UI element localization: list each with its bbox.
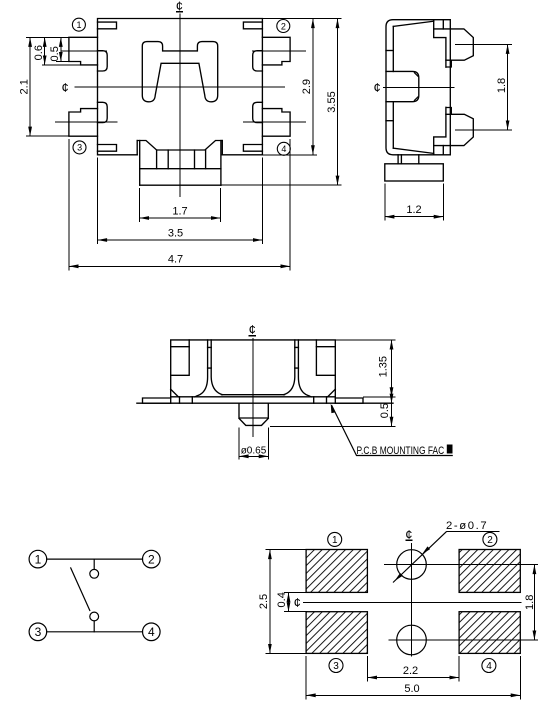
pin 2 circle — [143, 550, 161, 568]
svg-text:1.35: 1.35 — [378, 356, 390, 377]
parting tick top — [386, 50, 393, 52]
dim 2.9 extension top — [262, 18, 341, 20]
leader arrow — [331, 404, 335, 414]
svg-text:2: 2 — [487, 535, 493, 546]
inner chamfer top — [393, 21, 433, 26]
dim 3.55 line — [337, 19, 339, 186]
dim 3.5 extensions — [98, 158, 263, 245]
pin 1 circle — [29, 550, 47, 568]
terminal upper — [434, 29, 474, 60]
inner tab pin 2 — [253, 51, 263, 71]
svg-text:ø0.65: ø0.65 — [241, 446, 267, 457]
vertical centerline — [411, 543, 413, 657]
dim 1.8 line — [533, 565, 535, 641]
pin number 1 — [328, 532, 342, 546]
dim 1.2 line — [385, 216, 444, 218]
cover tab top — [434, 20, 452, 67]
leader line through hole — [393, 531, 447, 582]
body outline — [386, 20, 450, 155]
PCB mounting face line — [137, 402, 393, 404]
feet ticks — [180, 397, 327, 403]
terminal pin 1 — [69, 37, 98, 65]
cavity wall left tick — [208, 347, 212, 368]
hole row line top — [384, 564, 538, 566]
svg-text:4: 4 — [148, 625, 155, 639]
pin number 2 — [483, 532, 497, 546]
svg-text:3: 3 — [333, 661, 339, 672]
actuator ribs — [157, 150, 206, 169]
dim 2.1 extension bottom — [26, 135, 70, 137]
svg-text:1.7: 1.7 — [172, 206, 187, 218]
svg-text:1.2: 1.2 — [406, 204, 421, 216]
actuator bottom edge — [140, 184, 221, 186]
dim 0.4 extension bottom — [284, 611, 308, 613]
pin 3 circle — [29, 623, 47, 641]
bottom chamfer right — [328, 389, 336, 397]
actuator sides — [140, 141, 221, 186]
pin 3 row line — [55, 121, 117, 123]
terminal pin 4 — [262, 109, 290, 137]
inner tab pin 4 — [253, 102, 263, 122]
svg-text:4.7: 4.7 — [168, 254, 183, 266]
svg-text:4: 4 — [281, 144, 286, 154]
svg-text:0.5: 0.5 — [49, 46, 61, 61]
dim 0.65 line — [239, 455, 268, 457]
svg-text:2.9: 2.9 — [301, 79, 313, 94]
dim 1.2 extensions — [385, 184, 444, 221]
top band line — [171, 346, 336, 348]
inner tab pin 1 — [98, 51, 108, 71]
hole top — [397, 550, 427, 580]
flange right — [335, 398, 363, 403]
actuator inner line — [140, 168, 221, 170]
dim 5.0 line — [306, 694, 520, 696]
svg-text:2: 2 — [281, 21, 286, 31]
dim line vertical — [391, 340, 393, 427]
leader arrows — [395, 546, 431, 581]
shank extensions — [239, 428, 268, 460]
body outline — [171, 340, 336, 403]
parting tick bottom — [386, 120, 393, 122]
contact stub top — [93, 559, 95, 569]
cavity floor — [222, 394, 285, 396]
contact circle top — [90, 569, 99, 578]
dim 0.6 line — [44, 37, 46, 65]
contact clip cutout — [142, 42, 217, 102]
terminal pin 3 — [69, 109, 98, 137]
dim 1.8 extension bottom — [455, 129, 512, 131]
cavity wall left — [195, 340, 223, 397]
terminal left — [171, 340, 190, 375]
dim 0.4 extension top — [284, 591, 308, 593]
dim 5.0 extensions — [306, 656, 520, 699]
svg-text:1: 1 — [35, 553, 42, 567]
vertical centerline — [179, 14, 181, 198]
terminal lower — [434, 114, 474, 145]
corner tab top-left — [98, 22, 117, 29]
dim 2.2 extensions — [367, 656, 459, 682]
pad 3 — [306, 612, 367, 654]
switch body outline — [98, 19, 263, 155]
dim 2.9 extension bottom — [262, 154, 317, 156]
dim 1.7 line — [139, 217, 220, 219]
leader line — [332, 405, 453, 456]
dim 3.55 extension bottom — [221, 184, 342, 186]
dim 0.5 extension bottom — [270, 425, 396, 427]
svg-text:4: 4 — [486, 661, 492, 672]
seating line — [171, 396, 336, 398]
terminal pin 2 — [262, 37, 290, 65]
centerline — [383, 86, 455, 88]
contact circle bottom — [90, 612, 99, 621]
dim 1.35/0.5 extension top — [335, 339, 395, 341]
pad 4 — [459, 612, 520, 654]
svg-text:1.8: 1.8 — [496, 78, 508, 93]
hole row line bottom — [388, 639, 538, 641]
pad 2 — [459, 550, 520, 593]
dim 2.1 line — [29, 37, 31, 136]
svg-text:¢: ¢ — [374, 80, 381, 95]
svg-text:2.5: 2.5 — [258, 594, 270, 609]
label end box — [447, 445, 453, 454]
dim 0.5 line — [60, 37, 62, 61]
pin 4 row line — [243, 121, 306, 123]
pin number 4 — [482, 659, 496, 673]
vertical centerline — [252, 338, 254, 437]
wire 1-2 — [47, 558, 143, 560]
pin number 3 — [73, 141, 86, 154]
svg-text:2-ø0.7: 2-ø0.7 — [446, 520, 488, 532]
actuator notch edges — [137, 141, 222, 155]
dim 2.9 line — [312, 19, 314, 155]
contact stub bottom — [93, 621, 95, 632]
svg-text:1: 1 — [332, 535, 338, 546]
recess — [386, 71, 419, 101]
dim 2.1 extension top — [26, 36, 97, 38]
corner tab bottom-right — [243, 145, 262, 152]
svg-text:¢: ¢ — [62, 80, 69, 95]
dim 1.8 line — [507, 44, 509, 130]
pin 4 circle — [143, 623, 161, 641]
svg-text:0.4: 0.4 — [276, 592, 288, 607]
actuator outline — [137, 141, 222, 151]
inner wall left — [392, 26, 394, 148]
pin number 3 — [329, 659, 343, 673]
dim 0.65 arrows — [239, 454, 268, 458]
bottom chamfer left — [171, 389, 179, 397]
flange left — [143, 398, 171, 403]
pin number 2 — [277, 20, 290, 33]
shank — [239, 403, 268, 425]
dim 0.5 extension bottom — [56, 61, 69, 63]
cover tab bottom — [434, 107, 452, 155]
svg-text:3.5: 3.5 — [168, 228, 183, 240]
inner chamfer bottom — [393, 148, 433, 153]
svg-text:1.8: 1.8 — [524, 595, 536, 610]
cavity wall right — [284, 340, 312, 397]
corner tab bottom-left — [98, 145, 117, 152]
svg-text:3: 3 — [35, 625, 42, 639]
dim 1.8 extension top — [455, 43, 512, 45]
corner tab top-right — [243, 22, 262, 29]
lever — [71, 568, 90, 611]
dim 3.5 line — [98, 239, 263, 241]
hole bottom — [397, 625, 427, 655]
stem — [398, 155, 419, 164]
recess corner marks — [414, 72, 418, 101]
pin 1 row line — [61, 50, 107, 52]
terminal right — [316, 340, 335, 375]
inner tab pin 3 — [98, 102, 108, 122]
dim 2.5 line — [269, 550, 271, 654]
dim 0.4 arrows — [287, 592, 291, 611]
dim 2.5 extension bottom — [266, 652, 307, 654]
pin number 1 — [72, 18, 85, 31]
pin number 4 — [277, 142, 290, 155]
button — [385, 164, 444, 181]
dim 0.6 extension bottom — [42, 64, 81, 66]
cavity wall right tick — [295, 347, 299, 368]
dim 0.4 line — [288, 592, 290, 611]
dim 1.35/0.5 extension mid — [363, 396, 396, 398]
svg-text:3.55: 3.55 — [326, 91, 338, 112]
svg-text:1: 1 — [77, 20, 82, 30]
dim 4.7 line — [69, 265, 290, 267]
pad 1 — [306, 550, 367, 593]
pin 2 row line — [252, 50, 306, 52]
dim 2.5 extension top — [266, 549, 307, 551]
svg-text:P.C.B MOUNTING FAC: P.C.B MOUNTING FAC — [357, 445, 445, 457]
svg-text:2: 2 — [148, 553, 155, 567]
svg-text:¢: ¢ — [294, 595, 301, 610]
horizontal centerline — [75, 86, 286, 88]
dim 4.7 extensions — [69, 139, 290, 270]
horizontal centerline — [303, 601, 522, 603]
svg-text:2.2: 2.2 — [403, 665, 418, 677]
dim 1.7 extensions — [139, 188, 220, 222]
svg-text:0.6: 0.6 — [33, 45, 45, 60]
dim arrows 1.35/0.5 — [390, 340, 394, 427]
dim 2.2 line — [367, 677, 459, 679]
svg-text:0.5: 0.5 — [379, 403, 391, 418]
svg-text:2.1: 2.1 — [18, 79, 30, 94]
svg-text:3: 3 — [77, 143, 82, 153]
wire 3-4 — [47, 631, 143, 633]
svg-text:5.0: 5.0 — [404, 683, 419, 695]
